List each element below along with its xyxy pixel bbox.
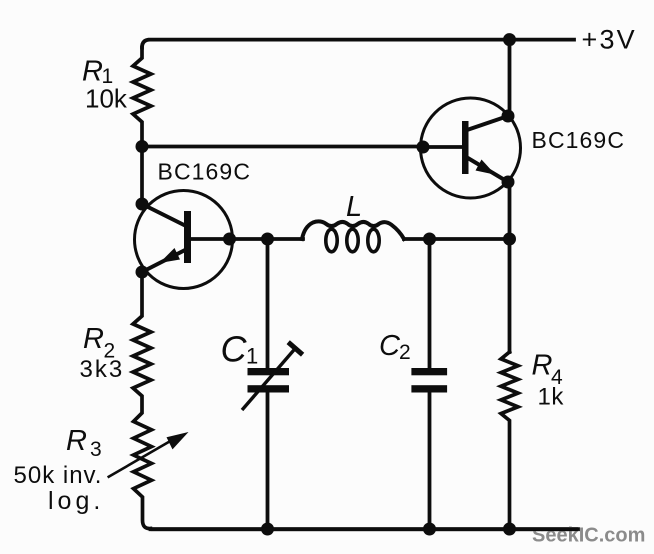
svg-text:log.: log. bbox=[48, 487, 104, 515]
svg-text:10k: 10k bbox=[85, 84, 128, 114]
svg-text:L: L bbox=[346, 191, 362, 223]
svg-text:50k inv.: 50k inv. bbox=[14, 462, 103, 489]
svg-text:1k: 1k bbox=[538, 384, 565, 411]
svg-text:BC169C: BC169C bbox=[532, 127, 626, 153]
svg-text:R: R bbox=[66, 425, 87, 457]
svg-text:+3V: +3V bbox=[582, 25, 637, 55]
svg-text:R: R bbox=[532, 350, 553, 382]
svg-text:R: R bbox=[83, 323, 104, 355]
svg-text:C: C bbox=[221, 329, 248, 370]
svg-text:3k3: 3k3 bbox=[80, 356, 125, 383]
svg-text:C: C bbox=[379, 330, 401, 362]
svg-text:2: 2 bbox=[399, 341, 411, 364]
svg-text:1: 1 bbox=[246, 344, 258, 369]
svg-text:3: 3 bbox=[90, 438, 102, 461]
svg-text:BC169C: BC169C bbox=[158, 159, 252, 185]
